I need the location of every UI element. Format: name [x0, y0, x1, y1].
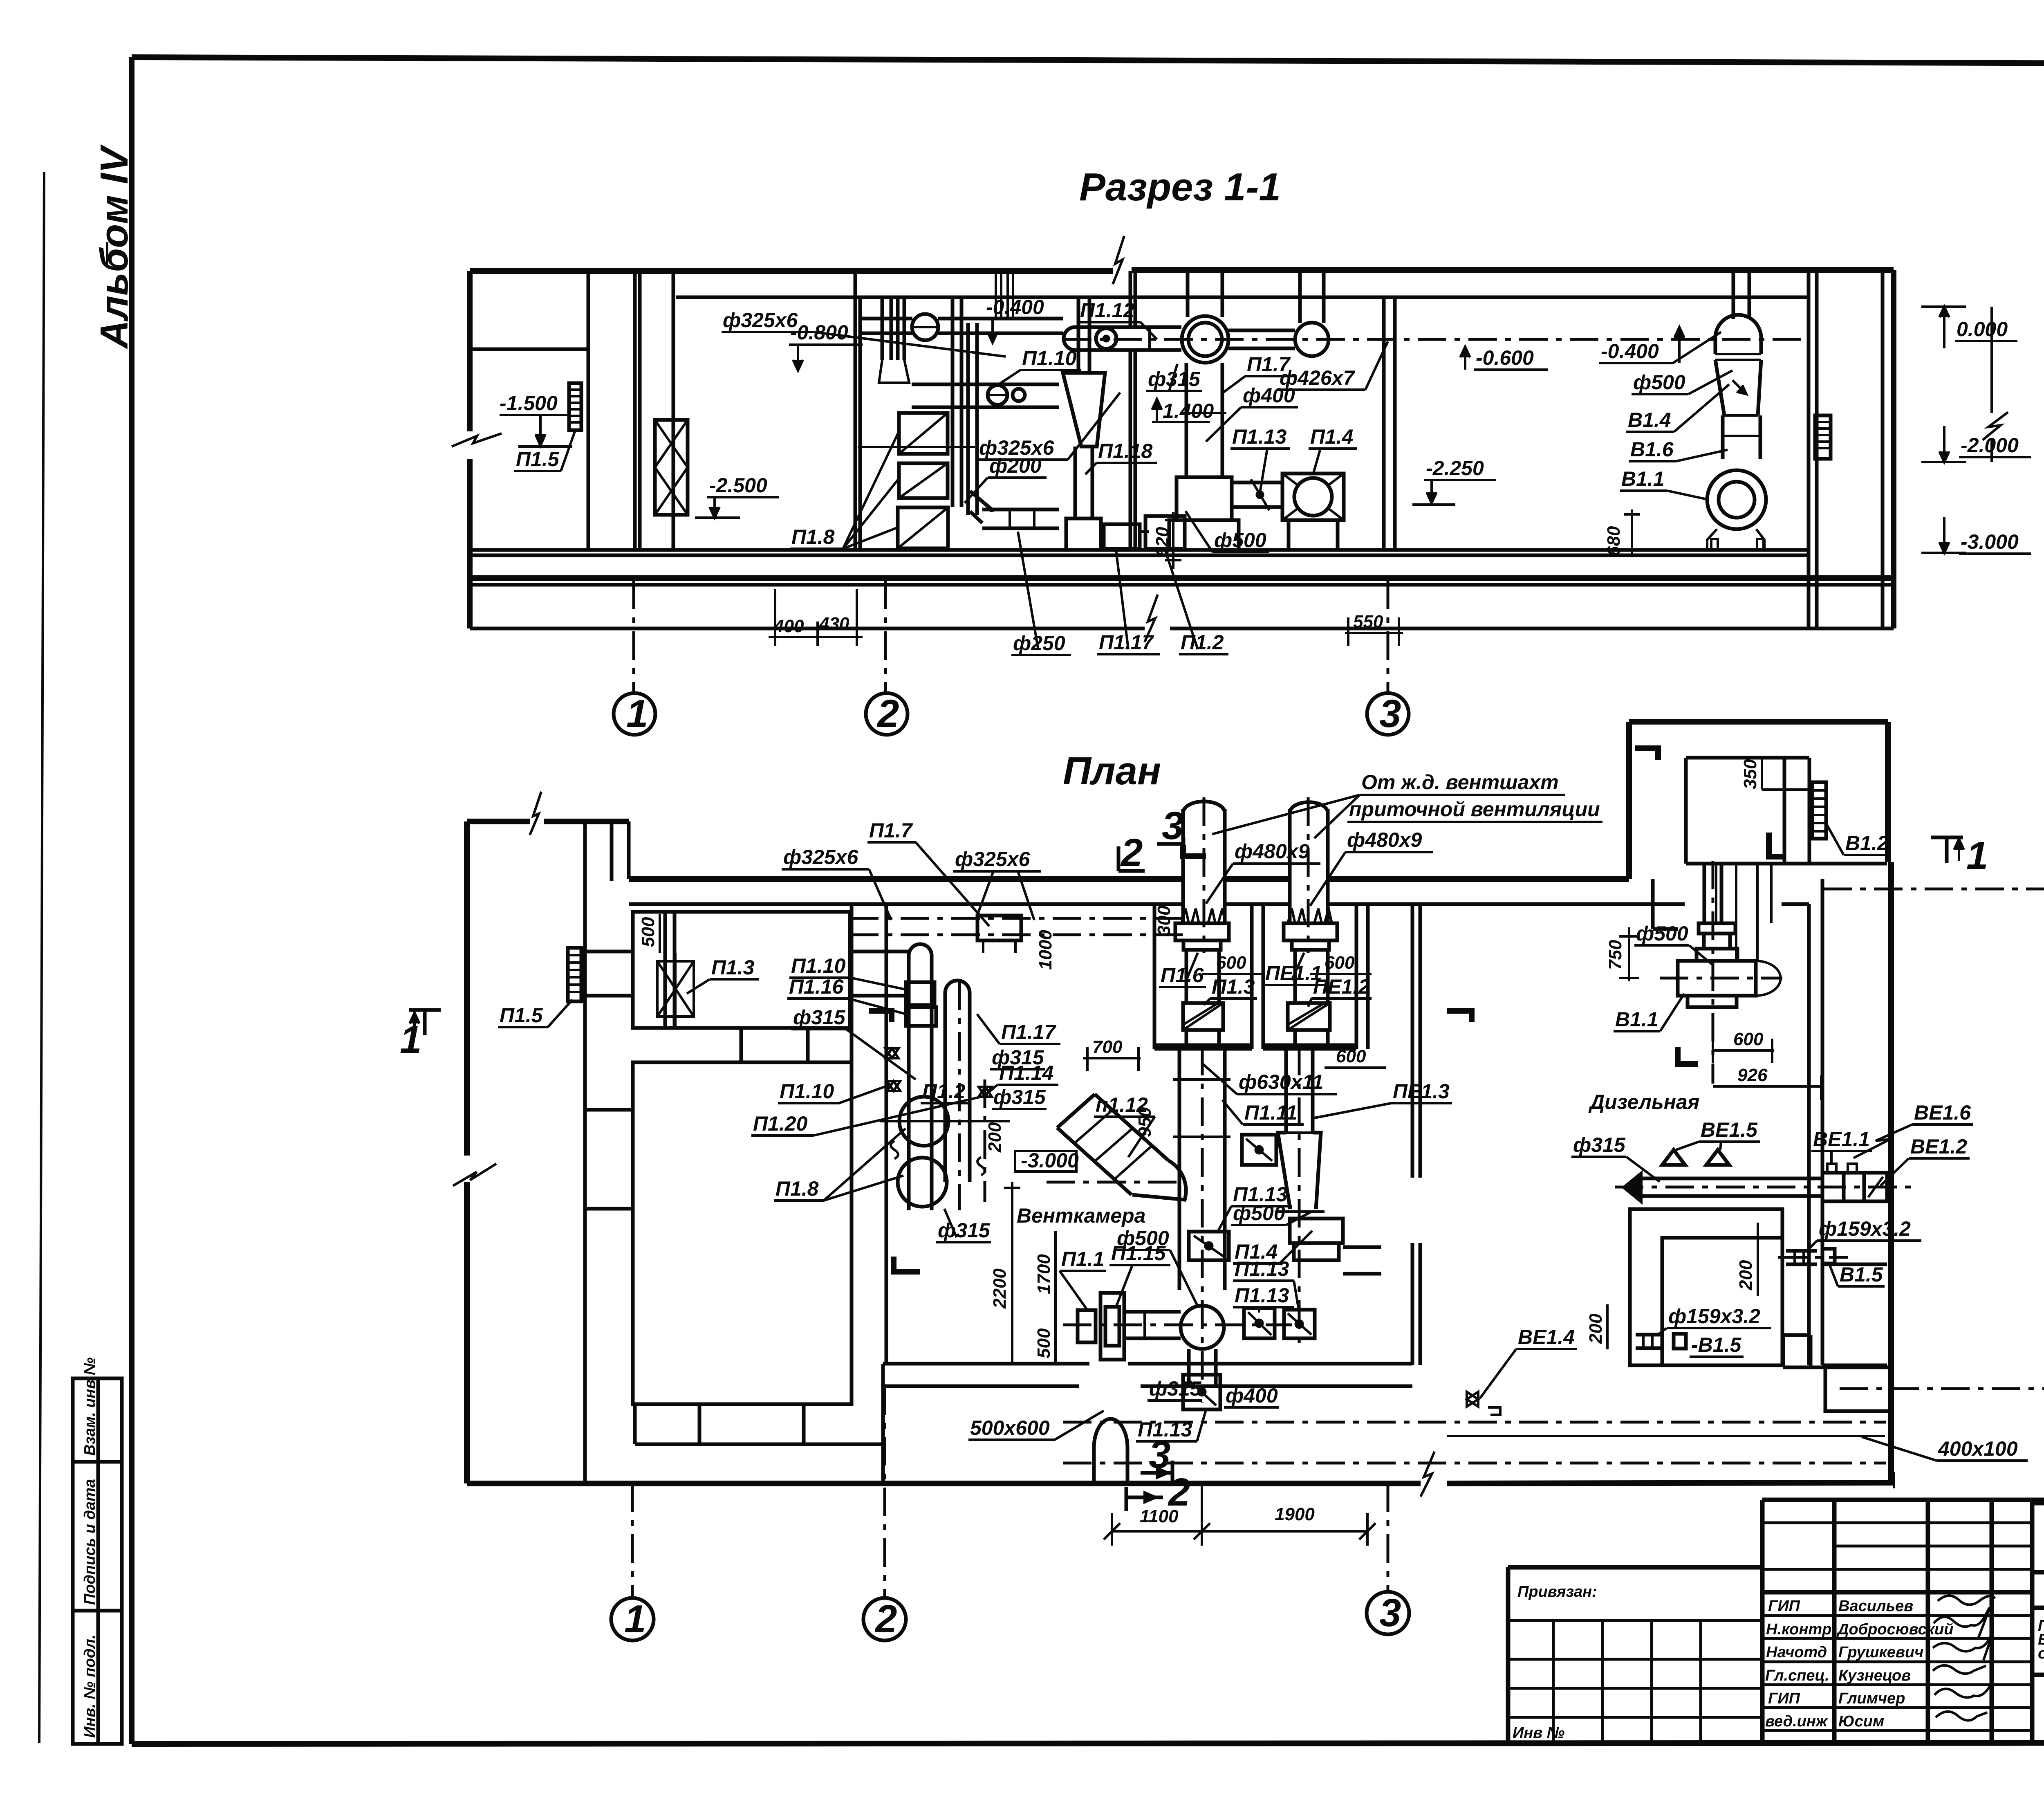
- shaft 2 ф480: [1288, 809, 1292, 923]
- grid bubble 1: [614, 693, 655, 735]
- П1.7 heater box on pipe: [977, 916, 1021, 940]
- svg-text:-3.000: -3.000: [1961, 530, 2019, 553]
- svg-text:ф400: ф400: [1226, 1384, 1278, 1407]
- grid axes bottom plan: [631, 1483, 634, 1597]
- pipe centerlines risers: [958, 981, 961, 1210]
- signature rows: [1762, 1614, 2032, 1617]
- ceiling outer line: [470, 268, 1113, 274]
- ledge left room: [470, 348, 588, 351]
- top pipe run: [860, 317, 912, 321]
- privyazan box: [1508, 1565, 1762, 1570]
- wall step left of B1.1: [1651, 879, 1655, 929]
- svg-text:П1.13: П1.13: [1232, 425, 1286, 448]
- duct louver to room A: [581, 950, 633, 954]
- main duct ф630 down: [1178, 1049, 1181, 1290]
- far right wall: [1881, 270, 1885, 628]
- dampers П1.13 chain: [1244, 1308, 1275, 1338]
- cylinder B1.6: [1721, 415, 1725, 459]
- svg-text:680: 680: [1604, 526, 1624, 556]
- filter П1.3 box: [1183, 1003, 1223, 1030]
- AHU cell walls: [1153, 904, 1156, 1049]
- filter П1.3 in room A: [657, 961, 694, 1017]
- svg-text:вед.инж: вед.инж: [1765, 1713, 1828, 1730]
- svg-text:0.000: 0.000: [1957, 318, 2008, 341]
- boxes on riser: [906, 982, 935, 1005]
- damper unit with X braces: [655, 420, 688, 515]
- top-left wall: [467, 819, 530, 824]
- svg-text:П1.5: П1.5: [500, 1004, 543, 1027]
- svg-text:620: 620: [1152, 527, 1172, 557]
- svg-text:Н.контр: Н.контр: [1766, 1621, 1831, 1638]
- svg-text:ф315: ф315: [1149, 1377, 1202, 1400]
- lower stamp row: [2032, 1673, 2044, 1677]
- В1.5 stub upper: [1786, 1249, 1817, 1253]
- svg-text:1100: 1100: [1140, 1506, 1179, 1526]
- mid duct П1.10 run: [912, 383, 1059, 386]
- svg-text:В1.2: В1.2: [1845, 832, 1889, 855]
- svg-text:П1.8: П1.8: [775, 1177, 819, 1200]
- svg-text:-0.600: -0.600: [1476, 346, 1534, 369]
- foundation bottom line: [470, 627, 1145, 631]
- filter ПЕ1.2 box: [1288, 1003, 1330, 1030]
- svg-text:Разрез 1-1: Разрез 1-1: [1079, 165, 1281, 209]
- wall right of П1.4: [1382, 297, 1386, 550]
- dim 680: [1631, 509, 1633, 556]
- svg-text:200: 200: [1736, 1260, 1756, 1290]
- svg-text:400х100: 400х100: [1938, 1437, 2018, 1460]
- svg-text:ф500: ф500: [1233, 1202, 1285, 1225]
- break symbol top: [1113, 236, 1124, 284]
- heater boxes П1.8: [899, 413, 948, 454]
- svg-text:Альбом IV: Альбом IV: [92, 144, 136, 349]
- duct stub above right circle: [1298, 270, 1302, 323]
- svg-text:600: 600: [1336, 1046, 1366, 1066]
- svg-text:Взам. инв №: Взам. инв №: [81, 1358, 99, 1456]
- left outer wall: [464, 821, 470, 1156]
- svg-text:350: 350: [1740, 759, 1760, 789]
- svg-text:ГИП: ГИП: [1768, 1598, 1800, 1615]
- svg-text:ф500: ф500: [1633, 371, 1685, 394]
- svg-text:-0.400: -0.400: [1601, 340, 1659, 363]
- П1.7 bottom box: [1177, 477, 1232, 520]
- corridor wall pair: [633, 271, 637, 550]
- svg-text:В1.6: В1.6: [1630, 438, 1674, 461]
- svg-text:П1.13: П1.13: [1235, 1257, 1289, 1280]
- svg-text:1: 1: [1966, 834, 1988, 877]
- riser pair 2: [945, 981, 970, 1182]
- svg-text:1000: 1000: [1035, 930, 1056, 970]
- svg-text:1: 1: [624, 1597, 646, 1641]
- svg-text:П1.10: П1.10: [780, 1080, 834, 1103]
- svg-text:В1.4: В1.4: [1628, 408, 1671, 431]
- riser pair 2: [896, 297, 900, 360]
- ПЕ duct down: [1284, 1049, 1288, 1133]
- cone B1.4: [1715, 360, 1761, 415]
- left attachment strip tables: [73, 1358, 122, 1744]
- svg-text:ф250: ф250: [1013, 632, 1065, 655]
- pipes down from В1.2 room: [1703, 864, 1706, 923]
- axis Б: [1840, 1387, 2044, 1390]
- svg-text:приточной вентиляции: приточной вентиляции: [1349, 798, 1600, 821]
- svg-text:ф325х6: ф325х6: [955, 848, 1030, 871]
- corner brackets: [869, 1011, 892, 1022]
- svg-text:Венткамера: Венткамера: [1017, 1204, 1145, 1227]
- svg-text:Начотд: Начотд: [1766, 1644, 1827, 1661]
- stadium duct П1.12: [1064, 327, 1181, 350]
- arrow on cone: [1732, 380, 1746, 393]
- svg-text:План: План: [1063, 749, 1161, 793]
- fan box П1.4: [1282, 474, 1344, 520]
- riser pipes to ceiling left: [995, 270, 997, 320]
- svg-text:ф325х6: ф325х6: [783, 846, 858, 868]
- dims 1100 1900: [1112, 1530, 1367, 1533]
- ВЕ1.5 cones: [1662, 1150, 1685, 1165]
- ceiling inner line: [676, 296, 1809, 299]
- diesel room left wall: [1411, 904, 1414, 1178]
- svg-text:ВЕ1.5: ВЕ1.5: [1701, 1118, 1758, 1141]
- floor slab lines: [470, 575, 1894, 581]
- fan circle П1.2: [1181, 1306, 1224, 1349]
- svg-text:ф500: ф500: [1117, 1227, 1169, 1250]
- break on right extension line: [1990, 307, 1993, 413]
- top wall line: [629, 876, 1183, 882]
- svg-text:3: 3: [1162, 804, 1183, 848]
- П1.8 circles: [899, 1097, 948, 1146]
- fan stack B1.1: [1732, 270, 1735, 319]
- svg-text:П1.16: П1.16: [789, 975, 844, 998]
- П1.12 diagonal duct: [1057, 1128, 1132, 1195]
- equipment room right wall: [854, 271, 857, 550]
- svg-text:ГИП: ГИП: [1768, 1690, 1800, 1707]
- pipe to right circle: [1228, 329, 1295, 332]
- svg-text:ф315: ф315: [1573, 1133, 1626, 1156]
- svg-text:500: 500: [1034, 1328, 1054, 1358]
- riser pipe axis2: [881, 297, 884, 360]
- svg-text:Кузнецов: Кузнецов: [1838, 1667, 1911, 1684]
- svg-text:550: 550: [1353, 612, 1383, 632]
- cyclone П1.18: [1077, 297, 1080, 373]
- floor carts П1.17 П1.2: [1104, 524, 1140, 549]
- svg-text:ВЕ1.4: ВЕ1.4: [1518, 1326, 1575, 1349]
- rounded top duct: [1715, 315, 1761, 354]
- svg-text:Добросювский: Добросювский: [1836, 1621, 1953, 1638]
- right rooms walls: [1807, 271, 1811, 628]
- svg-text:ВЕ1.1: ВЕ1.1: [1813, 1128, 1870, 1151]
- svg-text:750: 750: [1605, 940, 1625, 970]
- svg-text:Привязан:: Привязан:: [1517, 1583, 1597, 1600]
- svg-text:400: 400: [773, 616, 804, 636]
- svg-text:ПЕ1.3: ПЕ1.3: [1393, 1080, 1450, 1103]
- grid bubble 2: [866, 693, 908, 735]
- right column horizontals: [1822, 1263, 1887, 1266]
- pipe flange circle: [912, 314, 938, 340]
- duct stub above big circle: [1186, 270, 1190, 317]
- svg-text:ф480х9: ф480х9: [1235, 840, 1309, 863]
- svg-text:В1.1: В1.1: [1615, 1008, 1659, 1031]
- svg-text:Подпись и дата: Подпись и дата: [81, 1479, 99, 1605]
- break symbol bottom: [1145, 595, 1158, 642]
- svg-text:500: 500: [638, 917, 658, 947]
- duct lines from room A to riser: [850, 950, 909, 954]
- valves: [885, 1048, 899, 1058]
- svg-text:В1.5: В1.5: [1840, 1263, 1883, 1286]
- svg-text:П1.20: П1.20: [753, 1112, 807, 1135]
- svg-text:ф480х9: ф480х9: [1347, 828, 1422, 851]
- svg-text:П1.5: П1.5: [516, 448, 560, 471]
- duct П1.7 to П1.4: [1232, 481, 1282, 485]
- svg-text:ф426х7: ф426х7: [1280, 366, 1355, 389]
- level marks right: [1921, 305, 1966, 308]
- duct below fan: [1187, 1349, 1191, 1386]
- svg-text:ф315: ф315: [992, 1046, 1044, 1069]
- svg-text:Васильев: Васильев: [1838, 1598, 1913, 1615]
- svg-text:П1.8: П1.8: [791, 525, 835, 548]
- svg-text:Гл.спец.: Гл.спец.: [1765, 1667, 1829, 1684]
- big pipe circle: [1182, 316, 1228, 363]
- vertical risers pair: [951, 299, 955, 507]
- door arc: [1094, 1419, 1127, 1485]
- svg-text:Инв. № подл.: Инв. № подл.: [81, 1634, 99, 1738]
- channels 400x100: [1063, 1421, 1886, 1424]
- frame border left: [129, 57, 134, 1744]
- svg-text:-1.500: -1.500: [500, 392, 558, 415]
- svg-text:ф315: ф315: [993, 1086, 1046, 1109]
- scroll fan B1.1: [1707, 470, 1766, 529]
- svg-text:ф315: ф315: [793, 1006, 846, 1029]
- svg-text:Дизельная: Дизельная: [1588, 1091, 1699, 1113]
- AHU diffuser ПЕ1.1: [1284, 909, 1337, 950]
- floor lines: [470, 548, 1809, 552]
- svg-text:950: 950: [1135, 1107, 1155, 1137]
- svg-text:1: 1: [626, 692, 648, 736]
- В1.2 louver: [1812, 782, 1826, 839]
- svg-text:Грушкевич: Грушкевич: [1838, 1644, 1923, 1661]
- svg-text:ф200: ф200: [989, 454, 1042, 477]
- left outer wall: [467, 271, 473, 431]
- louver right wall: [1815, 415, 1831, 459]
- wall x2160 lower: [881, 1364, 885, 1483]
- svg-text:-3.000: -3.000: [1021, 1149, 1079, 1172]
- svg-text:П1.18: П1.18: [1098, 440, 1152, 462]
- signature squiggles: [1938, 1596, 1995, 1605]
- damper on duct: [1189, 1232, 1229, 1260]
- bottom right steps: [1782, 1335, 1785, 1367]
- break symbol left wall plan: [453, 1164, 496, 1186]
- inner left wall: [583, 821, 587, 1483]
- svg-text:П1.1: П1.1: [1061, 1248, 1104, 1270]
- T1 mark left: [409, 1008, 441, 1012]
- AHU diffuser П1.6: [1175, 909, 1229, 950]
- П1.1 П1.15 assembly: [1078, 1310, 1096, 1342]
- svg-text:200: 200: [1586, 1313, 1606, 1344]
- svg-text:ВЕ1.6: ВЕ1.6: [1914, 1101, 1971, 1124]
- partition stubs left: [585, 1108, 633, 1112]
- top wall inner line: [629, 902, 1183, 906]
- dash-dot pipe centerline: [1063, 338, 1809, 341]
- bottom duct boxes ф315 ф400: [1183, 1375, 1220, 1409]
- svg-text:-0.800: -0.800: [790, 321, 848, 344]
- pipe run continues: [938, 317, 1063, 321]
- diesel inner rooms: [1630, 1209, 1782, 1365]
- designation box: [2032, 1501, 2044, 1506]
- louver П1.5: [569, 383, 581, 430]
- svg-text:П1.2: П1.2: [922, 1080, 966, 1103]
- svg-text:2: 2: [1120, 831, 1143, 875]
- svg-text:ф159х3.2: ф159х3.2: [1819, 1217, 1911, 1240]
- svg-text:П1.10: П1.10: [1022, 347, 1076, 370]
- svg-text:Юсим: Юсим: [1838, 1713, 1884, 1730]
- room B lower-left: [633, 1062, 852, 1404]
- svg-text:600: 600: [1733, 1029, 1764, 1049]
- svg-text:П1.2: П1.2: [1181, 631, 1224, 654]
- svg-text:1700: 1700: [1034, 1254, 1054, 1294]
- svg-text:-2.000: -2.000: [1961, 434, 2019, 457]
- svg-text:3: 3: [1379, 1591, 1401, 1635]
- svg-text:П1.17: П1.17: [1001, 1021, 1056, 1044]
- svg-text:3: 3: [1379, 692, 1401, 736]
- svg-text:200: 200: [985, 1122, 1005, 1153]
- mid wall: [1129, 271, 1132, 326]
- -3.000 box: [1015, 1151, 1076, 1171]
- axis В: [1823, 888, 2044, 891]
- svg-text:ф315: ф315: [938, 1219, 991, 1242]
- svg-text:П1.7: П1.7: [869, 819, 913, 842]
- vent chamber bottom wall: [883, 1362, 1089, 1366]
- svg-text:1.400: 1.400: [1163, 399, 1214, 422]
- В1.5 stub lower: [1636, 1333, 1662, 1337]
- frame border top: [132, 57, 2044, 65]
- dim 550: [1345, 632, 1403, 634]
- svg-text:ф630х11: ф630х11: [1239, 1070, 1323, 1093]
- stubs between rooms: [740, 1028, 743, 1062]
- room A upper-left: [633, 912, 850, 1028]
- left dims 2200 1700 500 lines: [1011, 1182, 1013, 1365]
- break symbol left wall: [452, 433, 502, 447]
- svg-text:-В1.5: -В1.5: [1691, 1333, 1741, 1356]
- bottom band left room: [633, 1404, 637, 1444]
- grid axis lines section: [632, 581, 635, 693]
- П1.7 vertical duct: [1185, 363, 1188, 477]
- svg-text:П1.11: П1.11: [1244, 1101, 1298, 1124]
- stamp mid line: [2032, 1606, 2044, 1610]
- svg-text:700: 700: [1092, 1037, 1123, 1057]
- svg-text:П1.4: П1.4: [1310, 425, 1353, 448]
- table columns: [1832, 1500, 1837, 1744]
- muffler ВЕ: [1822, 1173, 1887, 1201]
- revision table rows: [1762, 1522, 2032, 1524]
- В1.1 unit plan: [1703, 863, 1706, 923]
- svg-text:ф500: ф500: [1214, 529, 1266, 552]
- rail line equipment room: [858, 446, 975, 448]
- svg-text:-2.250: -2.250: [1426, 457, 1484, 480]
- svg-text:Инв №: Инв №: [1513, 1724, 1564, 1741]
- svg-text:1900: 1900: [1275, 1504, 1315, 1524]
- svg-text:От ж.д. вентшахт: От ж.д. вентшахт: [1361, 771, 1559, 794]
- protruding room top: [1626, 722, 1632, 879]
- dim 620: [1172, 512, 1174, 569]
- louver П1.5 plan: [568, 948, 581, 1001]
- svg-text:430: 430: [819, 614, 849, 634]
- shaft 1 ф480: [1181, 809, 1185, 923]
- svg-text:П1.6: П1.6: [1161, 964, 1204, 987]
- right inner wall pair: [1807, 904, 1811, 1365]
- main bottom line: [467, 1481, 1421, 1486]
- svg-text:ф500: ф500: [1636, 922, 1688, 945]
- page edge line left: [39, 172, 44, 1743]
- svg-text:ф325х6: ф325х6: [723, 309, 798, 332]
- dash-dot pipe pair top: [850, 917, 1183, 920]
- title block outer box: [1762, 1498, 2044, 1502]
- svg-text:ПЕ1.2: ПЕ1.2: [1313, 975, 1370, 998]
- svg-text:П1.3: П1.3: [711, 956, 755, 979]
- frame border bottom: [132, 1743, 2044, 1744]
- riser pair 1 with stadium top: [909, 944, 932, 1210]
- AHU duct connectors: [1185, 950, 1188, 1003]
- svg-text:П1.10: П1.10: [791, 954, 845, 977]
- svg-text:2: 2: [874, 1597, 897, 1641]
- right outer wall: [1888, 862, 1894, 1483]
- svg-text:В1.1: В1.1: [1621, 467, 1665, 490]
- svg-text:300: 300: [1154, 905, 1174, 936]
- vent chamber left wall: [850, 904, 854, 1364]
- damper right of ПЕ: [1242, 1135, 1276, 1165]
- svg-text:2200: 2200: [990, 1268, 1010, 1309]
- svg-text:1: 1: [400, 1018, 421, 1061]
- dim 400 430: [769, 636, 863, 638]
- svg-text:П1.13: П1.13: [1235, 1284, 1289, 1307]
- elbow duct lower: [970, 491, 992, 523]
- wall axis1 room: [587, 271, 590, 550]
- svg-text:ВЕ1.2: ВЕ1.2: [1910, 1135, 1967, 1158]
- T1 mark right: [1931, 836, 1963, 839]
- svg-text:ф159х3.2: ф159х3.2: [1668, 1305, 1760, 1328]
- ПЕ transition: [1278, 1133, 1321, 1209]
- ПЕ fan boxes: [1290, 1219, 1343, 1243]
- svg-text:-2.500: -2.500: [709, 474, 767, 497]
- svg-text:500х600: 500х600: [970, 1416, 1050, 1439]
- svg-text:926: 926: [1737, 1065, 1768, 1085]
- svg-text:Глимчер: Глимчер: [1838, 1690, 1905, 1707]
- grid bubble 3: [1367, 693, 1409, 735]
- svg-text:2: 2: [876, 692, 899, 736]
- svg-text:отдельно стоящее заглублен-: отдельно стоящее заглублен-: [2038, 1645, 2044, 1662]
